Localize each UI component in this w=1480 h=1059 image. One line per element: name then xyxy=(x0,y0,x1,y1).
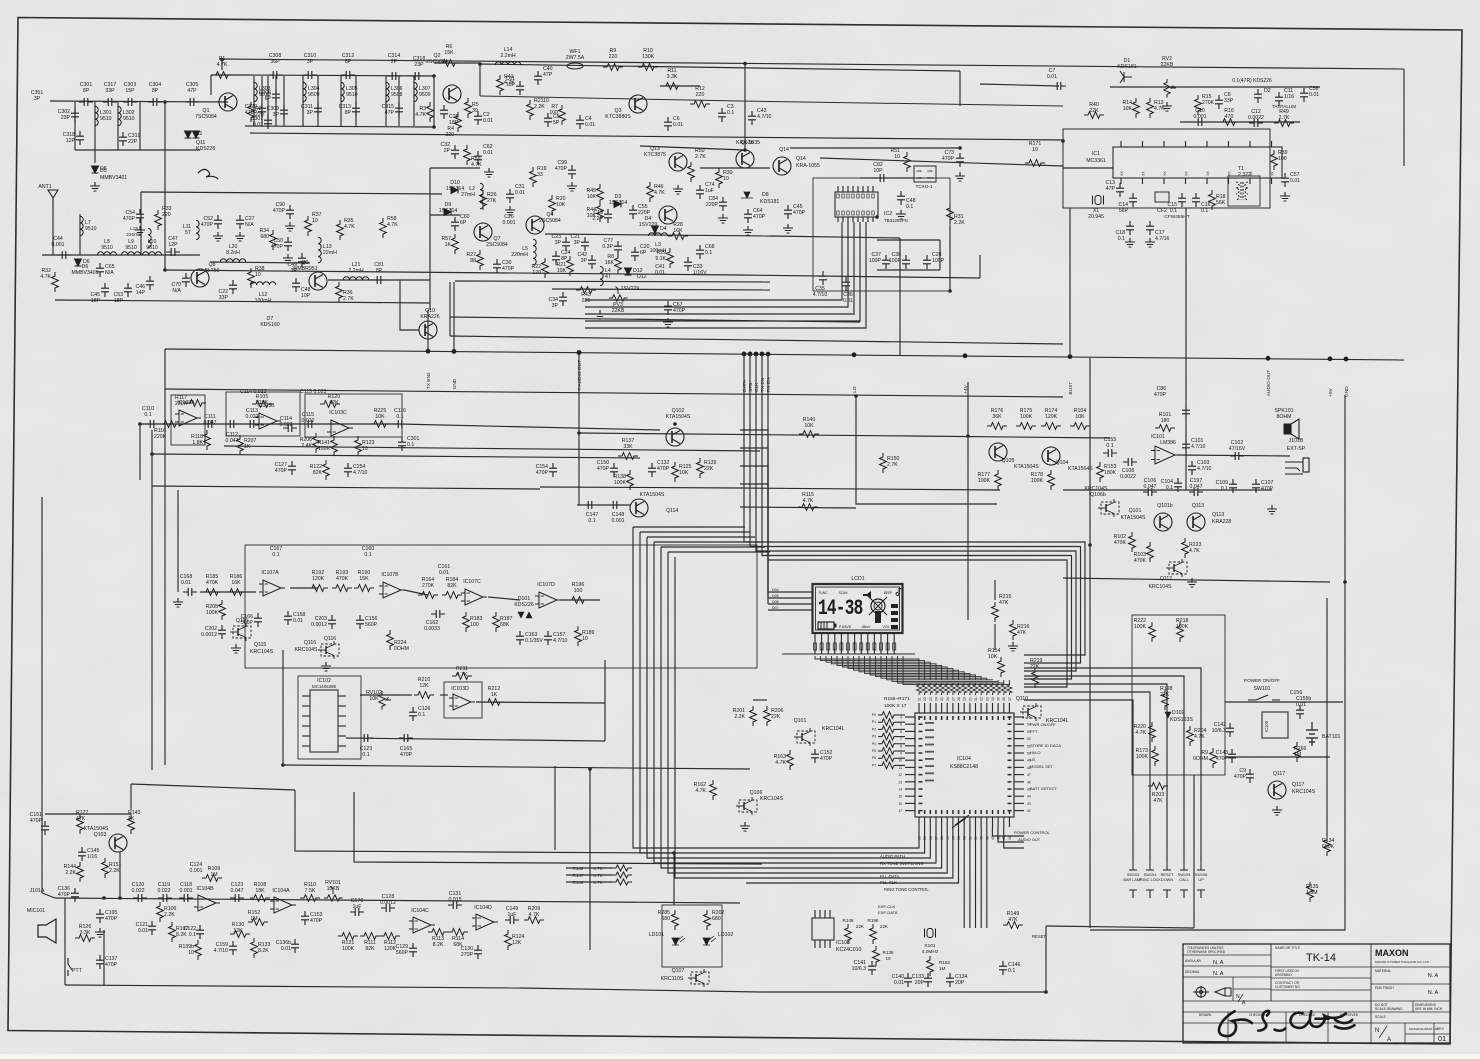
IC TCXO-1 xyxy=(914,166,936,182)
capacitor C27 xyxy=(236,215,244,229)
svg-text:REV: REV xyxy=(1437,1027,1445,1031)
svg-text:1SS314: 1SS314 xyxy=(439,208,458,214)
svg-text:29: 29 xyxy=(963,697,967,701)
ground xyxy=(1008,642,1018,651)
resistor R138 xyxy=(627,470,634,490)
svg-text:N. A: N. A xyxy=(1213,971,1224,977)
ground xyxy=(285,222,295,231)
svg-text:2.7K: 2.7K xyxy=(1279,115,1290,121)
svg-text:C315: C315 xyxy=(382,104,395,110)
svg-text:ANT1: ANT1 xyxy=(38,184,51,190)
wire pin xyxy=(842,186,844,192)
wire xyxy=(42,254,200,256)
wire xyxy=(75,149,200,151)
svg-text:MIC101: MIC101 xyxy=(27,908,45,914)
IC IC105 regulator xyxy=(1262,712,1288,738)
svg-text:C90: C90 xyxy=(275,202,285,208)
resistor R29 xyxy=(667,248,674,268)
svg-text:C22: C22 xyxy=(218,289,228,295)
resistor R37 xyxy=(305,216,312,236)
svg-text:22: 22 xyxy=(923,697,927,701)
svg-text:R150: R150 xyxy=(887,456,900,462)
wire xyxy=(283,765,750,769)
svg-text:XX: XX xyxy=(1271,171,1275,176)
svg-text:16K: 16K xyxy=(231,580,241,586)
wire tb slash xyxy=(1379,1026,1387,1038)
inductor L14 xyxy=(495,62,521,65)
diode D4 xyxy=(652,226,659,233)
svg-text:100: 100 xyxy=(1278,156,1287,162)
wire xyxy=(1004,827,1024,848)
transistor Q102 xyxy=(666,428,684,446)
capacitor C202 xyxy=(218,625,226,639)
svg-text:0.0012: 0.0012 xyxy=(311,622,327,628)
svg-text:0.1: 0.1 xyxy=(272,552,279,558)
wire xyxy=(455,281,770,282)
svg-text:R103: R103 xyxy=(1134,552,1147,558)
resistor R113 xyxy=(428,929,448,936)
wire xyxy=(1110,86,1320,88)
wire xyxy=(45,813,131,815)
svg-text:C203: C203 xyxy=(315,616,328,622)
svg-text:Q115: Q115 xyxy=(236,618,248,624)
svg-text:IC2: IC2 xyxy=(884,211,892,217)
wire IF out xyxy=(545,234,770,236)
wire xyxy=(164,349,166,765)
wire xyxy=(139,102,141,150)
wire pin xyxy=(1271,178,1273,184)
resistor R203 xyxy=(1148,783,1168,790)
wire xyxy=(753,699,767,701)
svg-text:C318: C318 xyxy=(63,132,76,138)
wire xyxy=(746,827,919,848)
wire xyxy=(440,694,448,696)
junction xyxy=(1343,580,1347,584)
capacitor C123 xyxy=(359,734,373,742)
wire xyxy=(1193,775,1195,928)
svg-text:100: 100 xyxy=(549,110,558,116)
svg-text:5: 5 xyxy=(900,723,902,727)
svg-text:470P: 470P xyxy=(105,962,118,968)
svg-text:Q11: Q11 xyxy=(196,140,206,146)
svg-text:100P: 100P xyxy=(869,258,882,264)
resistor R41 xyxy=(497,75,504,95)
wire tb xyxy=(1433,1023,1435,1043)
svg-text:100: 100 xyxy=(574,588,583,594)
svg-text:4.7K: 4.7K xyxy=(344,224,355,230)
svg-text:C14: C14 xyxy=(1118,202,1128,208)
svg-text:R126: R126 xyxy=(79,924,92,930)
wire xyxy=(140,192,142,255)
capacitor C35 xyxy=(819,271,827,285)
wire LCD pin xyxy=(840,633,842,654)
svg-text:21: 21 xyxy=(918,697,922,701)
svg-text:Q103: Q103 xyxy=(94,832,107,838)
svg-text:C35: C35 xyxy=(815,286,825,292)
svg-text:9509: 9509 xyxy=(419,92,431,98)
wire LCD to MCU xyxy=(865,656,970,680)
svg-text:R174: R174 xyxy=(1045,408,1058,414)
svg-text:R111: R111 xyxy=(364,940,376,946)
svg-text:470P: 470P xyxy=(105,916,118,922)
svg-text:88: 88 xyxy=(470,258,476,264)
capacitor C101 xyxy=(1182,439,1190,453)
svg-text:Q7: Q7 xyxy=(494,236,501,242)
inductor L304 xyxy=(303,82,306,101)
svg-text:C170: C170 xyxy=(351,898,364,904)
resistor R array xyxy=(922,683,927,695)
resistor R46 xyxy=(647,182,654,202)
svg-text:10K: 10K xyxy=(1123,106,1133,112)
svg-text:4.7K: 4.7K xyxy=(471,162,482,168)
svg-text:Q3: Q3 xyxy=(615,108,622,114)
svg-text:R120: R120 xyxy=(328,394,341,400)
wire pin xyxy=(814,940,816,948)
svg-text:220mH: 220mH xyxy=(126,232,142,238)
svg-text:Q110: Q110 xyxy=(1016,696,1028,702)
capacitor C129 xyxy=(409,943,417,957)
svg-text:560P: 560P xyxy=(365,622,378,628)
svg-text:R216: R216 xyxy=(1017,624,1030,630)
wire xyxy=(221,59,223,70)
svg-text:100K: 100K xyxy=(1176,624,1189,630)
svg-text:470P: 470P xyxy=(201,222,214,228)
wire xyxy=(1063,167,1113,169)
svg-text:R178: R178 xyxy=(1031,472,1044,478)
svg-text:10/6.3: 10/6.3 xyxy=(1212,728,1227,734)
capacitor C14 xyxy=(1129,193,1137,207)
wire tb xyxy=(1233,988,1271,990)
svg-text:0.0012: 0.0012 xyxy=(380,900,396,906)
resistor R49 xyxy=(1274,120,1294,127)
wire xyxy=(450,317,860,322)
resistor R32 xyxy=(52,272,59,292)
junction xyxy=(150,452,154,456)
svg-text:C2: C2 xyxy=(483,112,490,118)
svg-text:KRA-1055: KRA-1055 xyxy=(796,163,820,169)
svg-text:12K: 12K xyxy=(233,928,243,934)
svg-text:R45: R45 xyxy=(586,188,596,194)
wire LCD to MCU xyxy=(821,656,925,680)
digital transistor Q106 xyxy=(736,797,757,815)
capacitor C3 xyxy=(718,108,726,122)
wire pin xyxy=(302,695,310,697)
wire xyxy=(746,827,936,863)
svg-text:C254: C254 xyxy=(353,464,366,470)
svg-text:0.1: 0.1 xyxy=(727,110,734,116)
svg-text:C40: C40 xyxy=(543,66,553,72)
wire xyxy=(746,827,959,883)
ground xyxy=(1162,102,1172,111)
wire pin xyxy=(946,817,948,827)
svg-text:KRC104S: KRC104S xyxy=(294,647,318,653)
wire xyxy=(139,424,141,480)
capacitor C307 xyxy=(264,115,272,129)
svg-text:0.1: 0.1 xyxy=(1221,486,1228,492)
capacitor C34 xyxy=(559,292,567,306)
svg-text:C312: C312 xyxy=(342,53,355,59)
svg-text:2.2K: 2.2K xyxy=(534,104,545,110)
wire LCD pin xyxy=(873,633,875,654)
resistor R array xyxy=(996,683,1001,695)
wire pin xyxy=(924,817,926,827)
svg-text:18P: 18P xyxy=(506,82,516,88)
capacitor C6 xyxy=(664,117,672,131)
svg-text:POWER CONTROL: POWER CONTROL xyxy=(1014,830,1051,835)
svg-text:0.01: 0.01 xyxy=(1296,702,1306,708)
svg-text:C152: C152 xyxy=(820,750,833,756)
IC IC102 MC1405389 xyxy=(310,690,338,752)
wire xyxy=(210,262,310,263)
wire xyxy=(994,624,996,650)
capacitor C19 xyxy=(604,209,612,223)
node BUST xyxy=(1068,354,1073,359)
capacitor C90 xyxy=(286,205,294,219)
svg-text:Q115: Q115 xyxy=(254,642,266,648)
svg-text:LM386: LM386 xyxy=(1160,440,1176,446)
wire xyxy=(967,382,969,620)
wire pin xyxy=(905,759,915,761)
svg-text:R108: R108 xyxy=(254,882,267,888)
wire xyxy=(476,702,605,703)
capacitor C42 xyxy=(588,255,596,269)
wire xyxy=(64,898,66,985)
svg-text:12K: 12K xyxy=(512,940,522,946)
transistor Q117 xyxy=(1268,781,1286,799)
svg-text:470P: 470P xyxy=(400,752,413,758)
svg-text:KRA226: KRA226 xyxy=(420,314,439,320)
svg-text:8P: 8P xyxy=(376,268,383,274)
svg-text:C115: C115 xyxy=(302,412,314,418)
svg-text:R189: R189 xyxy=(582,630,595,636)
potentiometer PV3 xyxy=(609,287,628,302)
svg-text:9510: 9510 xyxy=(85,226,97,232)
resistor R101 xyxy=(1155,425,1175,432)
svg-text:C10: C10 xyxy=(1195,108,1205,114)
capacitor C126 xyxy=(409,707,417,721)
svg-text:C137: C137 xyxy=(105,956,118,962)
ground xyxy=(1267,505,1277,514)
ground xyxy=(484,168,494,177)
wire LCD to MCU xyxy=(898,656,1004,683)
capacitor C142 xyxy=(1226,723,1234,737)
wire pin xyxy=(1185,178,1187,184)
wire xyxy=(740,488,1000,490)
diode Q11 xyxy=(185,131,192,138)
svg-text:10K: 10K xyxy=(804,423,814,429)
wire pin xyxy=(1014,802,1024,804)
svg-text:R138: R138 xyxy=(614,474,627,480)
wire pin xyxy=(829,940,831,948)
svg-text:470P: 470P xyxy=(502,266,515,272)
svg-text:35: 35 xyxy=(997,697,1001,701)
svg-text:C99: C99 xyxy=(557,160,567,166)
capacitor D2 xyxy=(1254,89,1262,103)
capacitor C310 xyxy=(303,71,317,79)
svg-text:4.7K: 4.7K xyxy=(654,190,665,196)
wire xyxy=(898,757,905,759)
svg-text:Q101: Q101 xyxy=(794,718,807,724)
capacitor C64 xyxy=(744,209,752,223)
svg-text:1SS314: 1SS314 xyxy=(609,200,628,206)
capacitor C9 xyxy=(1246,769,1254,783)
svg-text:8.2K: 8.2K xyxy=(258,948,269,954)
svg-text:IC107A: IC107A xyxy=(261,570,279,576)
capacitor C20 xyxy=(631,247,639,261)
svg-text:L14: L14 xyxy=(504,47,513,53)
box IC103C stage xyxy=(305,394,402,437)
capacitor C54 xyxy=(136,209,144,223)
svg-text:C143: C143 xyxy=(1216,750,1229,756)
resistor R219 xyxy=(1032,668,1039,688)
svg-text:C84: C84 xyxy=(708,196,718,202)
junction xyxy=(958,146,962,150)
capacitor C162 xyxy=(431,610,445,618)
wire xyxy=(554,766,556,850)
svg-text:BAT101: BAT101 xyxy=(1322,734,1340,740)
svg-text:C168: C168 xyxy=(180,574,193,580)
wire pin xyxy=(952,703,954,713)
resistor R28 xyxy=(668,233,688,240)
svg-text:R30: R30 xyxy=(723,170,733,176)
wire bundle xyxy=(633,527,746,848)
svg-text:4.7K: 4.7K xyxy=(1154,106,1165,112)
svg-text:C304: C304 xyxy=(149,82,162,88)
svg-text:R206: R206 xyxy=(300,437,313,443)
wire xyxy=(898,743,905,745)
wire pin xyxy=(1163,141,1165,147)
svg-text:1SV229: 1SV229 xyxy=(639,222,658,228)
svg-text:18K: 18K xyxy=(255,888,265,894)
svg-text:C103: C103 xyxy=(1197,460,1210,466)
resistor xyxy=(878,762,898,769)
svg-text:P3: P3 xyxy=(872,735,876,739)
resistor R array xyxy=(1001,683,1006,695)
svg-text:4.7K: 4.7K xyxy=(1189,548,1200,554)
svg-text:IC104C: IC104C xyxy=(411,908,429,914)
resistor R150 xyxy=(880,453,887,473)
svg-text:POWER ON/OFF: POWER ON/OFF xyxy=(1244,678,1280,683)
svg-text:R140: R140 xyxy=(803,417,816,423)
wire xyxy=(980,827,982,928)
resistor R174 xyxy=(1041,423,1061,430)
svg-text:7.5K: 7.5K xyxy=(305,888,316,894)
capacitor C301 xyxy=(398,437,406,451)
resistor R102 xyxy=(1129,532,1136,552)
svg-text:470P: 470P xyxy=(597,466,610,472)
svg-text:D2: D2 xyxy=(1264,88,1271,94)
svg-text:R11: R11 xyxy=(667,68,676,74)
svg-text:0.1: 0.1 xyxy=(906,204,913,210)
svg-text:12: 12 xyxy=(898,773,902,777)
svg-text:2P: 2P xyxy=(444,148,451,154)
svg-text:0.022: 0.022 xyxy=(302,418,315,424)
capacitor C37 xyxy=(882,255,890,269)
svg-text:R57: R57 xyxy=(441,236,451,242)
capacitor C112 xyxy=(225,420,239,428)
svg-text:470P: 470P xyxy=(555,166,568,172)
wire xyxy=(430,167,480,169)
svg-text:R27: R27 xyxy=(466,252,476,258)
wire pin xyxy=(1142,178,1144,184)
svg-text:1uF: 1uF xyxy=(508,912,517,918)
svg-text:AUDIO OUT: AUDIO OUT xyxy=(1266,370,1272,397)
svg-text:C74: C74 xyxy=(705,182,715,188)
svg-text:R34: R34 xyxy=(259,228,269,234)
svg-text:28: 28 xyxy=(957,697,961,701)
wire xyxy=(103,930,105,985)
svg-text:4.7/10: 4.7/10 xyxy=(813,292,828,298)
capacitor C108 xyxy=(1123,458,1137,466)
resistor R51 xyxy=(904,152,911,172)
svg-text:46: 46 xyxy=(997,836,1001,840)
svg-text:C33: C33 xyxy=(693,264,703,270)
svg-text:EXP-CLK: EXP-CLK xyxy=(878,904,895,909)
wire xyxy=(302,76,304,126)
ground xyxy=(1187,578,1197,587)
resistor R35 xyxy=(337,220,344,240)
svg-text:220: 220 xyxy=(582,298,591,304)
svg-text:4.7/16: 4.7/16 xyxy=(1155,236,1170,242)
wire pin xyxy=(997,817,999,827)
svg-text:R5: R5 xyxy=(472,102,479,108)
wire pin xyxy=(980,703,982,713)
junction xyxy=(220,58,224,62)
svg-text:470P: 470P xyxy=(673,308,686,314)
wire bundle xyxy=(675,557,746,878)
wire xyxy=(267,76,269,126)
resistor R183 xyxy=(463,612,470,632)
svg-text:KTA1504S: KTA1504S xyxy=(1014,464,1039,470)
wire xyxy=(65,985,520,988)
wire pin xyxy=(929,817,931,827)
svg-text:0.1: 0.1 xyxy=(1118,236,1125,242)
resistor R21 xyxy=(567,256,574,276)
svg-text:C305: C305 xyxy=(186,82,199,88)
svg-text:100K: 100K xyxy=(206,610,219,616)
svg-text:C37: C37 xyxy=(871,252,881,258)
crystal X1 xyxy=(1093,196,1104,205)
wire top rail xyxy=(480,64,960,71)
wire xyxy=(261,76,263,126)
resistor R7 xyxy=(559,105,566,125)
wire pin xyxy=(852,186,854,192)
capacitor C136 xyxy=(71,888,79,902)
svg-text:LD102: LD102 xyxy=(718,932,733,938)
svg-text:C61: C61 xyxy=(505,76,515,82)
svg-text:C317: C317 xyxy=(104,82,117,88)
LED LD101 xyxy=(672,936,685,945)
capacitor C308 xyxy=(268,71,282,79)
svg-text:P7: P7 xyxy=(872,763,876,767)
svg-text:27: 27 xyxy=(951,697,955,701)
svg-text:10: 10 xyxy=(312,218,318,224)
wire pin xyxy=(935,703,937,713)
wire LCD to MCU xyxy=(887,656,993,680)
svg-text:D04: D04 xyxy=(772,588,779,592)
digital transistor Q107 xyxy=(688,969,709,987)
svg-text:9510: 9510 xyxy=(101,245,113,251)
svg-text:C112: C112 xyxy=(226,432,238,438)
capacitor C82 xyxy=(875,174,889,182)
capacitor C104 xyxy=(1174,478,1182,492)
wire pin xyxy=(905,738,915,740)
svg-text:R285: R285 xyxy=(658,910,671,916)
wire audio line xyxy=(55,898,740,903)
resistor xyxy=(878,733,898,740)
svg-text:470P: 470P xyxy=(1154,392,1167,398)
wire pin xyxy=(302,705,310,707)
